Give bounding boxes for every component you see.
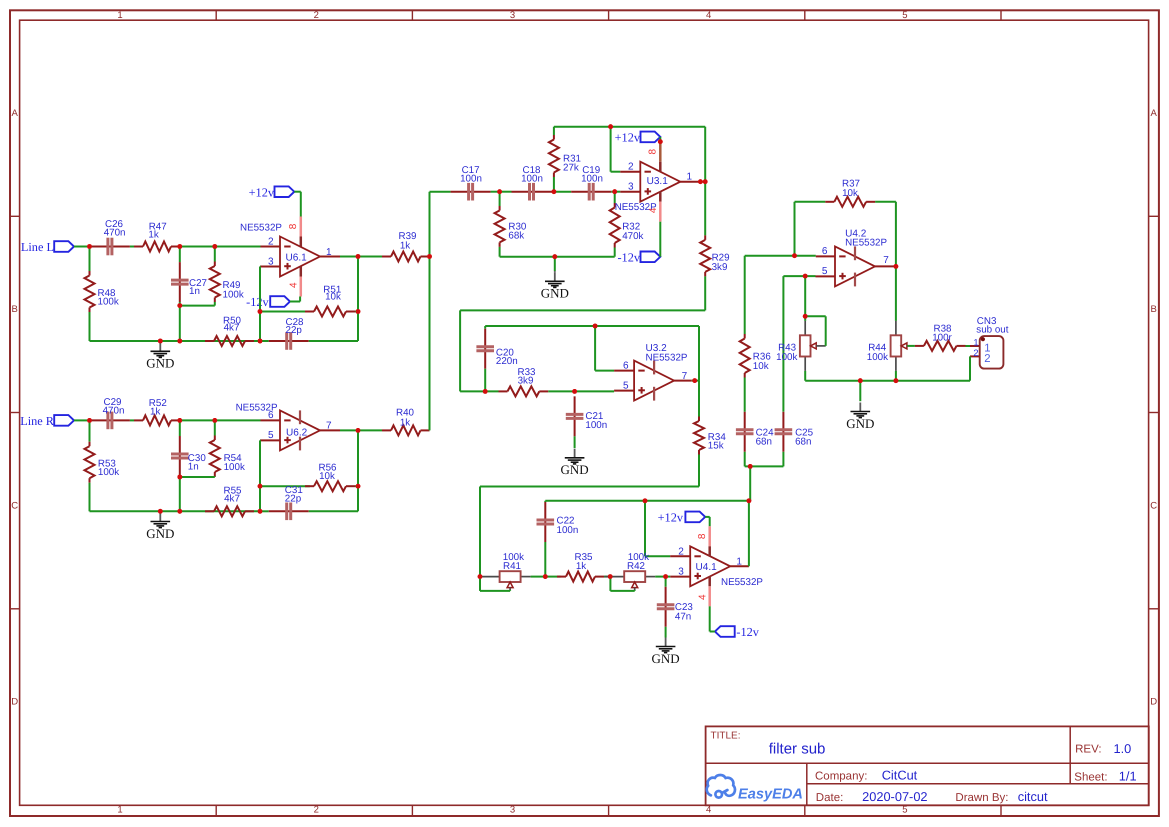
svg-text:1n: 1n — [189, 286, 200, 297]
junction — [258, 509, 263, 514]
U6.2 pin 7 label — [326, 421, 332, 432]
op-amp U6.1 — [240, 217, 320, 297]
junction — [158, 509, 163, 514]
junction dots layer — [87, 124, 898, 579]
svg-text:3: 3 — [510, 10, 515, 21]
potentiometer R41 — [480, 552, 531, 591]
U4.2 pin 7 label — [883, 255, 889, 266]
U6.2 pin 5 label — [268, 430, 274, 441]
U6.1 pin 2 stub — [261, 246, 281, 248]
junction — [258, 339, 263, 344]
junction — [608, 574, 613, 579]
junction — [356, 428, 361, 433]
svg-text:Company:: Company: — [815, 771, 867, 783]
junction — [792, 253, 797, 258]
junction — [356, 309, 361, 314]
U3.2 pin 6 label — [623, 360, 629, 371]
svg-text:7: 7 — [883, 255, 889, 266]
wire — [130, 246, 134, 248]
capacitor C21 — [566, 396, 607, 448]
wire — [74, 246, 90, 248]
wire — [355, 311, 358, 313]
svg-text:U6.2: U6.2 — [286, 427, 308, 438]
svg-text:1k: 1k — [400, 240, 410, 251]
potentiometer R44 — [867, 266, 908, 380]
svg-text:100k: 100k — [224, 462, 245, 473]
wire — [645, 501, 670, 557]
wire — [180, 246, 215, 248]
net flag Line R — [20, 414, 74, 428]
wire — [666, 576, 671, 578]
svg-text:D: D — [1150, 697, 1157, 708]
U6.1 pin 3 label — [268, 256, 274, 267]
svg-text:100k: 100k — [776, 352, 797, 363]
svg-text:8: 8 — [697, 533, 708, 539]
svg-text:+12v: +12v — [658, 511, 684, 525]
junction — [894, 264, 899, 269]
junction — [894, 378, 899, 383]
wire — [260, 311, 310, 313]
resistor R33 — [499, 367, 549, 397]
svg-text:100k: 100k — [98, 297, 119, 308]
junction — [612, 189, 617, 194]
svg-text:R41: R41 — [503, 561, 521, 572]
U3.1 pin 8 label — [648, 148, 659, 154]
svg-text:100k: 100k — [98, 467, 119, 478]
svg-text:NE5532P: NE5532P — [646, 352, 688, 363]
capacitor C29 — [90, 397, 130, 429]
U6.1 pin 1 label — [326, 247, 332, 258]
wire gnd rail — [805, 380, 970, 382]
junction — [212, 418, 217, 423]
wire — [130, 419, 134, 421]
date field — [816, 789, 928, 804]
resistor R50 — [205, 315, 254, 346]
wire mix node vertical — [429, 192, 431, 431]
U3.1 pin 4 label — [648, 207, 659, 213]
junction — [552, 189, 557, 194]
capacitor C26 — [90, 219, 130, 255]
junction — [177, 418, 182, 423]
potentiometer R42 — [605, 552, 656, 591]
wire c22 rail — [545, 501, 749, 502]
svg-text:B: B — [1151, 304, 1157, 315]
wire — [749, 466, 751, 500]
svg-text:NE5532P: NE5532P — [240, 222, 282, 233]
wire — [74, 419, 90, 421]
power flag +12v — [615, 131, 661, 145]
wire — [545, 576, 560, 578]
svg-text:1: 1 — [117, 804, 122, 815]
resistor R38 — [915, 323, 966, 351]
drawn by field — [955, 789, 1048, 804]
power flag -12v — [715, 625, 760, 639]
junction — [552, 254, 557, 259]
svg-text:1/1: 1/1 — [1119, 769, 1137, 784]
svg-text:1.0: 1.0 — [1114, 741, 1132, 756]
U4.1 pin 2 stub — [670, 555, 690, 557]
wire — [460, 390, 498, 392]
svg-text:REV:: REV: — [1075, 743, 1101, 755]
U6.2 pin 7 stub — [320, 429, 340, 431]
wire — [604, 576, 610, 578]
junction — [698, 179, 703, 184]
wire — [907, 345, 915, 347]
junction — [608, 124, 613, 129]
svg-text:4: 4 — [289, 282, 300, 288]
svg-text:8: 8 — [648, 148, 659, 154]
svg-text:27k: 27k — [563, 163, 579, 174]
rev field — [1075, 741, 1131, 756]
wire — [290, 297, 300, 302]
svg-text:10k: 10k — [319, 471, 335, 482]
wire — [531, 576, 546, 578]
svg-text:100n: 100n — [585, 420, 607, 431]
wire — [659, 137, 661, 142]
capacitor C28 — [260, 317, 309, 350]
frame row labels — [11, 108, 1157, 708]
U4.2 pin 6 stub — [816, 255, 835, 257]
wire — [692, 380, 699, 382]
wire — [480, 487, 699, 578]
wire gnd rail — [500, 256, 615, 258]
U4.1 pin 4 label — [697, 594, 708, 600]
U3.1 pin 3 label — [628, 182, 634, 193]
wire — [659, 222, 661, 257]
U6.1 pin 1 stub — [320, 256, 340, 258]
wire — [180, 419, 215, 421]
resistor R53 — [85, 420, 120, 511]
U6.1 pin 2 label — [268, 236, 274, 247]
junction — [87, 418, 92, 423]
resistor R37 — [825, 179, 875, 207]
junction — [543, 574, 548, 579]
svg-text:470k: 470k — [622, 231, 643, 242]
resistor R51 — [305, 284, 355, 316]
wire — [294, 192, 301, 217]
svg-text:22p: 22p — [286, 325, 303, 336]
capacitor C24 — [736, 378, 774, 467]
wire — [179, 477, 181, 511]
U3.1 pin 1 stub — [680, 181, 700, 183]
U3.2 pin 5 stub — [614, 390, 634, 392]
U3.2 pin 7 stub — [674, 380, 692, 382]
svg-text:1: 1 — [117, 10, 122, 21]
junction — [177, 475, 182, 480]
U4.1 pin 1 stub — [730, 565, 749, 567]
wire — [460, 310, 705, 391]
U3.1 pin 2 label — [628, 162, 634, 173]
wire pin5 — [783, 275, 815, 277]
junction — [258, 484, 263, 489]
svg-text:1n: 1n — [188, 462, 199, 473]
svg-text:1k: 1k — [576, 561, 586, 572]
wire — [552, 191, 554, 193]
capacitor C17 — [451, 165, 491, 201]
net flag Line L — [21, 240, 74, 254]
resistor R48 — [85, 247, 119, 342]
wire — [705, 517, 710, 526]
resistor R31 — [549, 127, 581, 192]
svg-text:Line R: Line R — [20, 414, 55, 428]
svg-text:100n: 100n — [581, 173, 603, 184]
junction — [747, 498, 752, 503]
U4.1 pin 2 label — [678, 546, 684, 557]
wire — [611, 127, 621, 172]
svg-text:D: D — [11, 697, 18, 708]
svg-text:sub out: sub out — [976, 325, 1008, 336]
svg-text:100k: 100k — [223, 289, 244, 300]
U4.1 pin 8 label — [697, 533, 708, 539]
ground GND — [561, 449, 589, 477]
svg-text:68n: 68n — [756, 437, 772, 448]
capacitor C30 — [171, 420, 206, 477]
connector CN3 — [970, 316, 1009, 368]
wire — [554, 191, 571, 193]
junction — [478, 574, 483, 579]
U3.1 pin 3 stub — [620, 191, 640, 193]
svg-text:Date:: Date: — [816, 792, 844, 804]
svg-text:1k: 1k — [400, 417, 410, 428]
U3.1 pin 1 label — [687, 172, 693, 183]
wire feedback R37 — [795, 202, 896, 267]
power flag +12v — [658, 511, 706, 525]
U4.2 pin 7 stub — [875, 265, 896, 267]
svg-text:-12v: -12v — [246, 295, 269, 309]
ground GND — [146, 513, 174, 541]
wire — [748, 501, 750, 567]
junction — [858, 378, 863, 383]
svg-text:GND: GND — [146, 526, 174, 541]
svg-text:4: 4 — [697, 594, 708, 600]
wire — [180, 476, 215, 478]
svg-text:+12v: +12v — [615, 131, 641, 145]
svg-text:4k7: 4k7 — [224, 493, 240, 504]
junction — [87, 244, 92, 249]
wire — [260, 485, 310, 487]
junction — [483, 389, 488, 394]
capacitor C31 — [260, 485, 309, 520]
svg-text:100k: 100k — [867, 352, 888, 363]
svg-text:R42: R42 — [627, 561, 645, 572]
svg-text:15k: 15k — [708, 440, 724, 451]
junction — [803, 314, 808, 319]
wire bottom rail — [90, 340, 261, 342]
U4.1 pin 1 label — [736, 557, 742, 568]
resistor R49 — [210, 247, 244, 306]
junction — [643, 498, 648, 503]
svg-text:C: C — [11, 501, 18, 512]
svg-text:10k: 10k — [325, 292, 341, 303]
U6.1 pin 4 label — [289, 282, 300, 288]
ground GND — [146, 342, 174, 370]
svg-text:2: 2 — [973, 348, 978, 358]
resistor R52 — [134, 398, 180, 425]
svg-text:U4.1: U4.1 — [696, 562, 718, 573]
svg-text:-12v: -12v — [617, 250, 640, 264]
svg-text:5: 5 — [902, 10, 907, 21]
junction — [177, 244, 182, 249]
resistor R29 — [700, 182, 729, 311]
svg-text:EasyEDA: EasyEDA — [738, 786, 803, 802]
svg-text:10k: 10k — [842, 188, 858, 199]
svg-text:2: 2 — [314, 804, 319, 815]
wire output — [340, 429, 358, 431]
op-amp U3.2 — [634, 343, 688, 400]
svg-text:4k7: 4k7 — [224, 323, 240, 334]
wire — [611, 191, 615, 193]
svg-text:2: 2 — [984, 353, 990, 365]
wire — [804, 276, 806, 321]
U4.1 pin 3 stub — [670, 576, 690, 578]
power flag -12v — [246, 295, 290, 309]
svg-text:Drawn By:: Drawn By: — [955, 792, 1008, 804]
wire — [966, 345, 971, 347]
svg-text:1: 1 — [973, 338, 978, 348]
op-amp U4.2 — [835, 229, 888, 287]
svg-text:1k: 1k — [148, 230, 158, 241]
U6.2 pin 5 stub — [261, 439, 281, 441]
junction — [803, 274, 808, 279]
capacitor C19 — [571, 165, 611, 201]
wire — [704, 127, 706, 182]
svg-text:filter sub: filter sub — [769, 741, 826, 758]
wire — [548, 390, 614, 392]
wire — [430, 191, 451, 193]
svg-text:100n: 100n — [460, 173, 482, 184]
junction — [158, 339, 163, 344]
junction — [663, 574, 668, 579]
wire — [179, 306, 181, 341]
svg-text:470n: 470n — [104, 228, 126, 239]
svg-text:A: A — [1151, 108, 1158, 119]
svg-text:B: B — [12, 304, 18, 315]
svg-text:Sheet:: Sheet: — [1074, 771, 1107, 783]
wire — [358, 256, 382, 258]
wire — [969, 356, 971, 380]
resistor R32 — [610, 192, 644, 257]
wire — [595, 326, 614, 371]
op-amp U6.2 — [236, 403, 320, 451]
wire — [615, 191, 621, 193]
svg-text:100r: 100r — [932, 333, 952, 344]
title block table — [706, 726, 1149, 805]
wire bottom rail — [90, 510, 261, 512]
capacitor C22 — [537, 502, 579, 577]
U4.2 pin 5 label — [822, 266, 828, 277]
svg-text:-12v: -12v — [736, 625, 759, 639]
wire — [804, 371, 806, 381]
junction — [177, 303, 182, 308]
svg-text:100n: 100n — [557, 525, 579, 536]
svg-text:A: A — [12, 108, 19, 119]
capacitor C20 — [476, 329, 517, 392]
frame column labels — [117, 10, 907, 815]
svg-text:GND: GND — [146, 356, 174, 371]
svg-text:470n: 470n — [103, 405, 125, 416]
capacitor C23 — [657, 577, 694, 638]
wire — [655, 576, 665, 578]
title text — [711, 730, 826, 757]
junction — [258, 309, 263, 314]
svg-text:GND: GND — [846, 416, 874, 431]
junction — [658, 139, 663, 144]
ground GND — [846, 381, 874, 431]
resistor R40 — [382, 408, 430, 436]
ground GND — [652, 638, 680, 666]
junction — [497, 189, 502, 194]
resistor R56 — [305, 463, 355, 492]
junction — [212, 244, 217, 249]
svg-text:GND: GND — [541, 286, 569, 301]
U3.1 pin 2 stub — [620, 171, 640, 173]
sheet field — [1074, 769, 1136, 784]
svg-text:2020-07-02: 2020-07-02 — [862, 789, 927, 804]
U4.1 pin 3 label — [678, 566, 684, 577]
junction — [427, 254, 432, 259]
svg-text:1k: 1k — [150, 406, 160, 417]
wire — [309, 510, 358, 512]
wire — [180, 305, 215, 307]
svg-text:U3.1: U3.1 — [647, 176, 669, 187]
svg-text:68k: 68k — [508, 231, 524, 242]
U6.2 pin 6 stub — [261, 419, 281, 421]
junction — [356, 484, 361, 489]
wire — [700, 181, 705, 183]
junction — [356, 254, 361, 259]
svg-text:TITLE:: TITLE: — [711, 730, 741, 741]
wire — [710, 606, 715, 631]
U3.2 pin 6 stub — [614, 370, 634, 372]
svg-text:4: 4 — [648, 207, 659, 213]
U4.2 pin 5 stub — [816, 275, 836, 277]
svg-text:3k9: 3k9 — [518, 376, 534, 387]
op-amp U3.1 — [615, 142, 681, 222]
wire pin6 row — [745, 255, 816, 257]
svg-text:220n: 220n — [496, 356, 518, 367]
U6.1 pin 8 label — [288, 223, 299, 229]
junction — [593, 324, 598, 329]
svg-text:citcut: citcut — [1018, 789, 1048, 804]
wire — [355, 485, 358, 487]
svg-text:GND: GND — [652, 651, 680, 666]
resistor R30 — [495, 192, 527, 257]
U6.1 pin 3 stub — [261, 266, 281, 268]
wire — [358, 429, 382, 431]
wire — [500, 191, 512, 193]
resistor R55 — [205, 486, 254, 517]
junction — [572, 389, 577, 394]
resistor R39 — [382, 231, 430, 262]
svg-text:U6.1: U6.1 — [286, 253, 308, 264]
company field — [815, 768, 918, 783]
wire output — [340, 256, 358, 258]
svg-text:8: 8 — [288, 223, 299, 229]
U3.2 pin 5 label — [623, 380, 629, 391]
capacitor C18 — [512, 165, 552, 201]
svg-text:4: 4 — [706, 10, 711, 21]
wire pin5 node vertical — [259, 440, 262, 511]
svg-text:NE5532P: NE5532P — [721, 577, 763, 588]
resistor R36 — [740, 256, 772, 378]
U3.2 pin 7 label — [682, 371, 688, 382]
resistor R34 — [694, 381, 726, 487]
junction — [703, 179, 708, 184]
ground GND — [541, 257, 569, 301]
svg-text:10k: 10k — [753, 361, 769, 372]
svg-text:NE5532P: NE5532P — [845, 237, 887, 248]
power flag +12v — [249, 185, 295, 199]
